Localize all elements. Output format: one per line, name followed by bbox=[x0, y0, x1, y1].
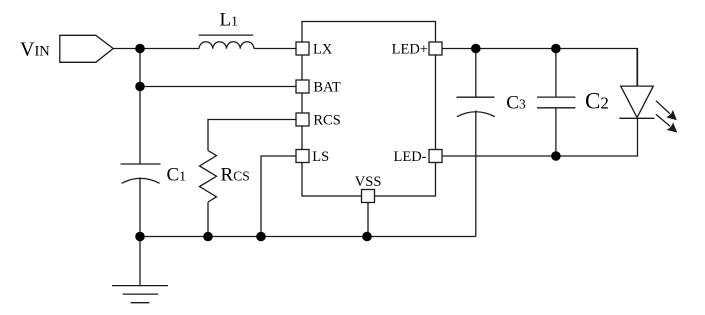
svg-text:LX: LX bbox=[313, 42, 333, 58]
svg-text:RCS: RCS bbox=[221, 165, 250, 186]
wire VIN node down to BAT node bbox=[139, 49, 141, 87]
junction node GND-RCS bbox=[203, 232, 213, 242]
wire LED+ rail bbox=[442, 49, 638, 87]
svg-text:VSS: VSS bbox=[355, 174, 382, 190]
LED light arrow 2 bbox=[656, 114, 677, 132]
pin RCS bbox=[296, 113, 309, 126]
ground rail bbox=[140, 236, 476, 238]
op-amp U1 (converter IC body) bbox=[302, 22, 436, 197]
LED light arrow 1 bbox=[656, 101, 677, 121]
junction node GND-LS bbox=[256, 232, 266, 242]
wire C2 top lead bbox=[555, 49, 557, 98]
svg-text:C3: C3 bbox=[506, 93, 526, 114]
wire BAT node to BAT pin bbox=[140, 86, 296, 88]
wire inductor to LX pin bbox=[254, 48, 296, 50]
ground bbox=[112, 237, 168, 303]
junction node LED+/C3 bbox=[471, 44, 481, 54]
junction node GND-VSS bbox=[362, 232, 372, 242]
svg-text:C2: C2 bbox=[585, 89, 609, 114]
resistor RCS bbox=[200, 151, 217, 203]
wire LS pin down to ground rail bbox=[261, 156, 296, 237]
LED D1 bbox=[619, 49, 654, 119]
pin LED+ bbox=[429, 42, 442, 55]
pin VSS bbox=[362, 190, 375, 203]
wire C2 bottom lead bbox=[555, 108, 557, 156]
pin LX bbox=[296, 42, 309, 55]
connector VIN bbox=[60, 35, 113, 62]
capacitor C1 bbox=[121, 164, 161, 237]
pin LED- bbox=[429, 150, 442, 163]
capacitor C2 bbox=[537, 97, 575, 108]
capacitor C3 bbox=[457, 97, 495, 117]
wire VSS pin to ground rail bbox=[367, 203, 369, 237]
wire BAT node down to capacitor C1 bbox=[139, 87, 141, 165]
wire VIN to inductor bbox=[113, 48, 199, 50]
svg-text:VIN: VIN bbox=[20, 39, 50, 61]
wire C3 top lead bbox=[475, 49, 477, 98]
svg-text:L1: L1 bbox=[220, 10, 238, 31]
pin LS bbox=[296, 150, 309, 163]
junction node LED-/C2 bbox=[551, 151, 561, 161]
wire resistor to ground rail bbox=[207, 202, 209, 236]
junction node VIN bbox=[135, 44, 145, 54]
wire LED- rail bbox=[442, 118, 638, 156]
junction node GND-C1 bbox=[135, 232, 145, 242]
wire C3 bottom lead to ground rail bbox=[475, 111, 477, 237]
svg-text:LED+: LED+ bbox=[392, 42, 428, 58]
junction node BAT bbox=[135, 82, 145, 92]
svg-text:LS: LS bbox=[312, 149, 329, 165]
pin BAT bbox=[296, 80, 309, 93]
svg-text:LED-: LED- bbox=[393, 149, 426, 165]
svg-text:RCS: RCS bbox=[313, 113, 340, 129]
svg-text:BAT: BAT bbox=[313, 80, 341, 96]
wire RCS pin to resistor bbox=[208, 120, 296, 151]
inductor L1 bbox=[199, 35, 254, 49]
svg-text:C1: C1 bbox=[167, 165, 186, 186]
junction node LED+/C2 bbox=[551, 44, 561, 54]
